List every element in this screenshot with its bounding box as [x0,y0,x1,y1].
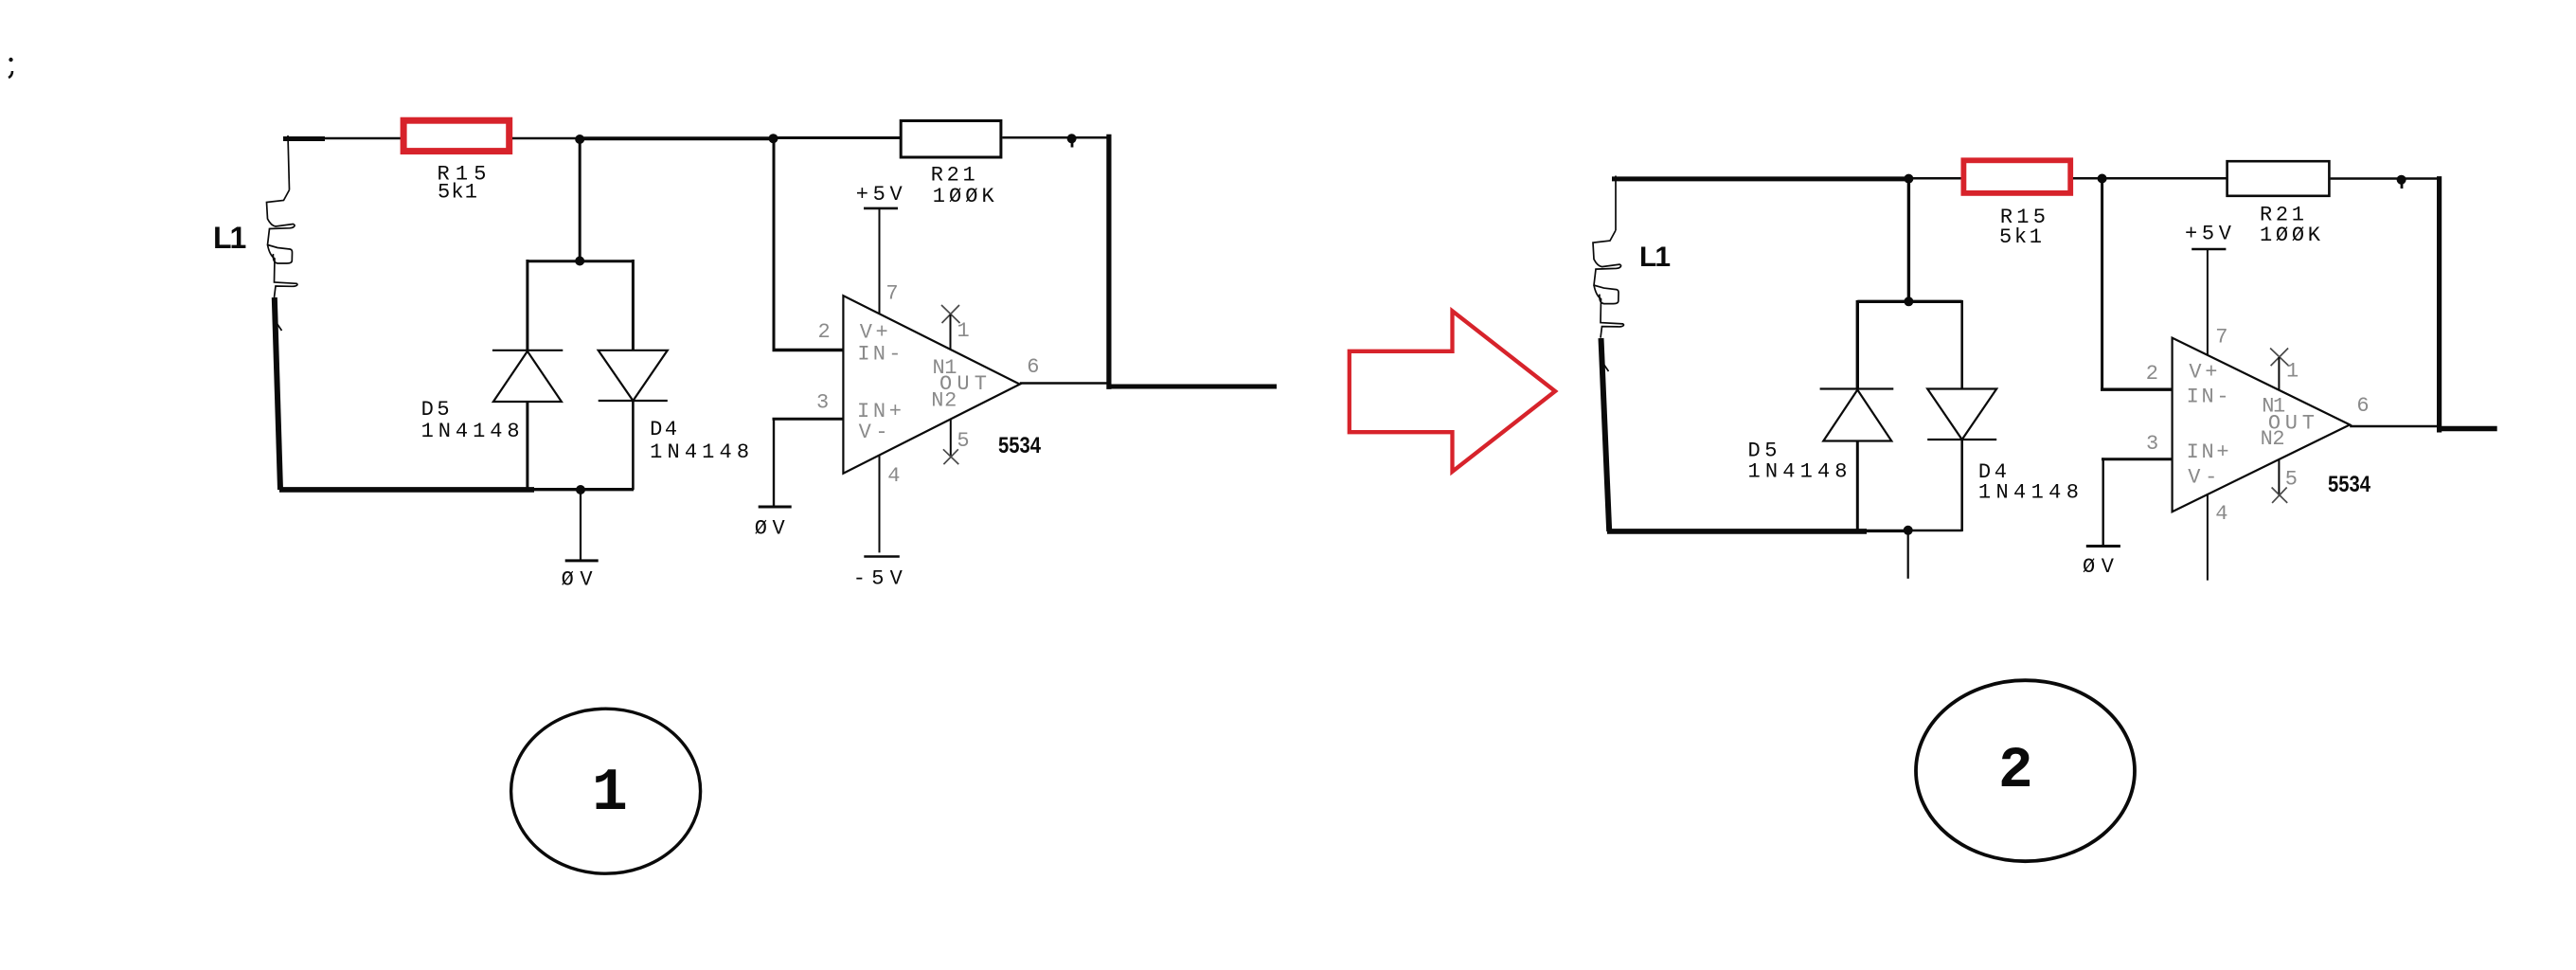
node junction dot B2 [2098,174,2107,184]
pin1 no-connect X [2270,349,2289,367]
resistor R15 (red highlighted box) [403,120,510,151]
pin1 no-connect X [941,305,960,323]
svg-text:IN-: IN- [2187,386,2229,409]
svg-text:2: 2 [1998,739,2033,804]
svg-text:-5V: -5V [853,567,903,591]
svg-text:L1: L1 [1639,242,1670,273]
diode D4 triangle [1927,389,1996,440]
node junction dot E2 [1904,526,1913,535]
svg-text:1N4148: 1N4148 [1978,481,2079,505]
wire: down to D4 anode [1960,300,1963,389]
wire: node A2 to R15 [1908,177,1964,180]
pin5 no-connect X [943,449,958,464]
wire: node B2 down to pin2 [2101,179,2103,390]
wire: thick output run [2437,426,2497,432]
step circle 1 [511,709,701,873]
wire: R21 right to feedback corner [2331,177,2440,180]
stray semicolon mark top-left [9,58,13,78]
wire: pin5 stem [2278,459,2280,495]
wire: thick feedback vertical [2437,176,2442,432]
arrow between circuits [1350,311,1555,472]
svg-text:1ØØK: 1ØØK [2260,224,2321,247]
wire: circuit2 top thick rail [1612,176,1909,181]
wire: pin3 horizontal [2102,458,2173,460]
wire: node B1 to R21 [774,136,902,139]
svg-text:5k1: 5k1 [1999,225,2042,249]
node junction dot B1 [769,134,778,143]
pin5 no-connect X [2272,488,2288,503]
svg-text:1N4148: 1N4148 [421,420,520,443]
node junction dot A2 [1904,174,1913,184]
wire: pin2 horizontal [773,349,844,351]
wire: down to D5 cathode [526,260,528,350]
svg-text:7: 7 [2215,325,2227,349]
svg-text:+5V: +5V [856,183,903,207]
step circle 2 [1916,680,2135,861]
wire: pin4 stem (no supply symbol) [2207,494,2209,581]
wire: bottom rail thin segment [1908,530,1962,532]
svg-text:4: 4 [887,464,900,488]
wire: thick output run [1107,385,1278,389]
resistor R15 (red highlighted box) [1963,160,2070,193]
power +5V bar [864,207,898,210]
svg-text:4: 4 [2215,502,2227,526]
inductor L1 lead [288,135,290,190]
svg-text:5: 5 [957,429,969,453]
inductor L1 coil scribble [1593,230,1623,338]
svg-text:6: 6 [1027,355,1039,379]
wire: pin1 stem [950,314,952,350]
wire: node A1 to node B1 [580,136,774,140]
wire: thick feedback vertical [1106,135,1111,389]
diode D5 cathode bar [1820,387,1894,389]
svg-text:1N4148: 1N4148 [650,440,749,464]
inductor L1 thick lead [1601,338,1610,531]
wire: node A1 down to diode pair [579,138,581,261]
svg-text:1ØØK: 1ØØK [933,185,995,208]
wire: ground stub [580,490,581,561]
stray tick on L1 lead [275,320,282,331]
ground bar 0V pin3 [759,506,792,509]
svg-text:N2: N2 [931,389,957,413]
wire: pin7 supply stem [2207,249,2209,355]
wire: node A2 down to diode pair [1907,179,1910,302]
node junction dot E1 [576,485,585,494]
wire: pin3 down to ground [773,418,775,508]
svg-text:D5: D5 [421,398,450,422]
diode D5 cathode bar [492,350,563,351]
wire: diode pair top bar [528,260,634,262]
svg-text:2: 2 [818,320,831,344]
power -5V bar [864,555,900,558]
svg-text:5k1: 5k1 [438,181,477,205]
wire: R15 right to node [512,137,581,140]
svg-text:+5V: +5V [2185,223,2232,246]
wire: pin2 horizontal [2101,388,2173,391]
svg-text:R21: R21 [931,164,975,188]
wire: down to D4 anode [632,260,635,350]
diode D5 triangle [1823,390,1891,441]
wire: D4 cathode to bottom rail [632,401,635,490]
wire: pin3 horizontal [773,418,844,421]
svg-text:D4: D4 [650,418,677,441]
svg-text:6: 6 [2356,394,2369,418]
op-amp U1 triangle [2173,338,2351,512]
wire: pin5 stem [950,420,952,457]
wire: circuit1 top-left thick stub [283,136,325,141]
ground bar 0V mid [565,559,599,562]
op-amp U1 triangle [843,296,1019,474]
wire: D5 anode to bottom rail [526,402,528,491]
resistor R21 [2227,161,2330,196]
svg-text:ØV: ØV [2083,555,2115,579]
node junction dot D2 [1904,296,1913,306]
svg-text:ØV: ØV [755,516,786,540]
wire: op-amp output to feedback corner [1020,382,1109,385]
inductor L1 lead [1615,176,1617,231]
node junction dot D1 [575,257,584,266]
wire: op-amp output to feedback corner [2350,425,2440,428]
wire: node B2 to R21 [2102,177,2227,180]
svg-text:L1: L1 [213,221,246,255]
svg-text:1: 1 [592,760,628,827]
svg-text:1: 1 [2286,360,2299,384]
wire: ground stub (no symbol) [1907,530,1909,579]
wire: R15 to node B2 [2073,177,2103,180]
wire: D4 cathode to bottom rail [1960,440,1963,531]
ground bar 0V pin3 [2086,545,2120,548]
wire: down to D5 cathode [1856,300,1859,389]
node junction dot A1 [575,135,584,144]
wire: pin3 down to ground [2102,458,2103,546]
node junction dot C2 [2397,175,2406,185]
wire: D5 anode to bottom rail [1856,441,1859,533]
wire: bottom rail medium segment [1866,530,1909,532]
svg-text:1N4148: 1N4148 [1748,460,1848,484]
svg-text:5534: 5534 [998,433,1042,458]
wire: pin4 stem [879,456,881,553]
diode D4 cathode bar [599,400,668,402]
wire: node B1 down to pin2 [773,138,776,350]
wire: bottom thick rail [279,487,534,493]
svg-text:1: 1 [957,319,970,343]
diode D5 triangle [493,351,562,402]
svg-text:ØV: ØV [562,567,594,591]
resistor R21 [901,121,1001,158]
wire: diode pair top bar [1857,300,1961,303]
wire: pin7 supply stem [879,208,881,314]
wire: pin1 stem [2278,357,2280,390]
wire: circuit1 top wire to R15 [323,137,402,140]
wire: R21 right to feedback corner [1002,136,1109,139]
diode D4 triangle [599,350,668,401]
inductor L1 coil scribble [267,190,297,298]
svg-text:5534: 5534 [2328,472,2371,497]
svg-text:3: 3 [816,391,829,415]
wire: bottom thick rail [1607,529,1867,534]
svg-text:3: 3 [2146,432,2158,456]
svg-text:IN-: IN- [857,342,901,366]
inductor L1 thick lead [275,297,280,490]
svg-text:7: 7 [885,281,898,305]
diode D4 cathode bar [1927,439,1996,440]
power +5V bar [2191,248,2226,251]
svg-text:N2: N2 [2261,427,2285,451]
node junction dot C1 [1067,134,1077,143]
svg-text:IN+: IN+ [2187,440,2229,464]
stray tick on L1 lead [1601,361,1609,371]
svg-text:2: 2 [2146,362,2158,386]
